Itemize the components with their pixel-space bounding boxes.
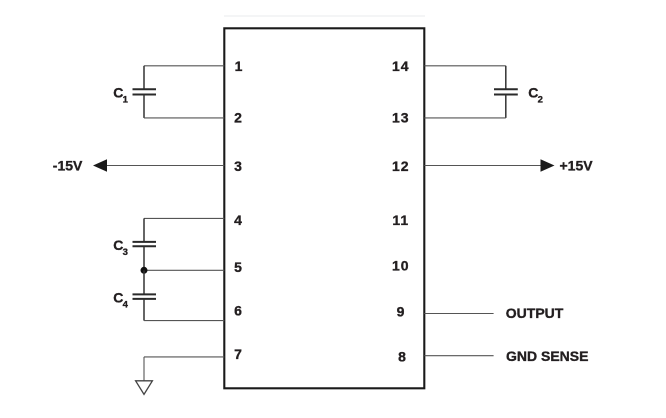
svg-text:5: 5 xyxy=(234,259,242,275)
svg-text:1: 1 xyxy=(235,58,243,74)
wire pin12 to +15V arrow xyxy=(424,165,541,167)
wire pin14 to C2 top xyxy=(424,65,506,67)
junction dot xyxy=(141,267,148,274)
wire pin5 to junction xyxy=(144,269,224,271)
svg-text:4: 4 xyxy=(234,212,242,228)
svg-text:6: 6 xyxy=(234,303,242,319)
wire pin1 to C1 top xyxy=(144,65,224,67)
svg-text:12: 12 xyxy=(392,158,410,174)
svg-text:11: 11 xyxy=(392,212,409,228)
wire pin4 to C3 top xyxy=(144,217,224,219)
capacitor C1 xyxy=(133,66,157,118)
svg-text:GND SENSE: GND SENSE xyxy=(506,348,588,364)
wire pin2 to C1 bottom xyxy=(144,117,224,119)
svg-text:9: 9 xyxy=(397,304,405,320)
wire pin13 to C2 bottom xyxy=(424,117,506,119)
-15V arrowhead xyxy=(93,159,107,171)
wire pin8 to GND SENSE xyxy=(424,355,493,357)
capacitor C2 xyxy=(494,66,518,118)
svg-text:+15V: +15V xyxy=(560,158,594,174)
svg-text:3: 3 xyxy=(234,158,242,174)
wire pin9 to OUTPUT xyxy=(424,313,493,315)
capacitor C4 xyxy=(133,270,157,320)
svg-text:7: 7 xyxy=(234,346,242,362)
svg-text:2: 2 xyxy=(234,110,242,126)
+15V arrowhead xyxy=(541,159,555,171)
wire C4 bottom to pin6 xyxy=(144,320,224,322)
svg-text:OUTPUT: OUTPUT xyxy=(506,305,564,321)
ground xyxy=(136,381,153,395)
wire pin3 to -15V arrow xyxy=(106,165,225,167)
svg-text:-15V: -15V xyxy=(53,158,83,174)
capacitor C3 xyxy=(133,218,157,270)
svg-text:8: 8 xyxy=(398,349,406,365)
svg-text:13: 13 xyxy=(392,110,410,126)
svg-text:10: 10 xyxy=(392,258,410,274)
IC U1 xyxy=(224,28,424,388)
wire pin7 to ground xyxy=(144,357,224,381)
svg-text:14: 14 xyxy=(392,58,410,74)
